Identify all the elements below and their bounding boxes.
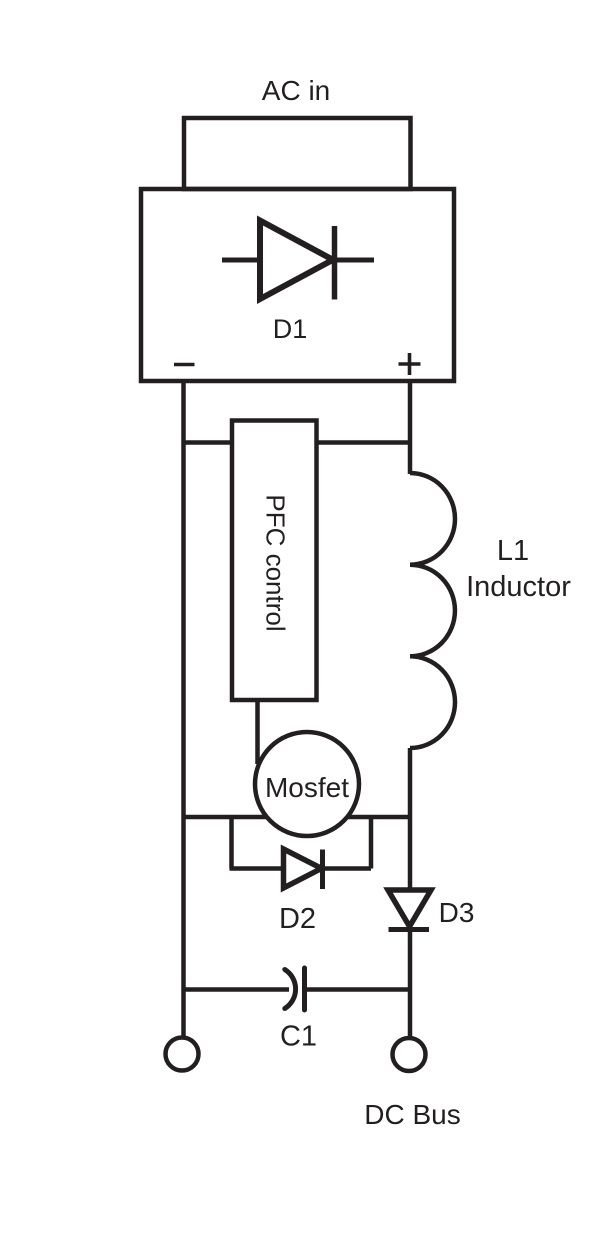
svg-text:Inductor: Inductor: [466, 571, 571, 603]
wire PFC left connector: [184, 440, 233, 445]
minus terminal mark: [174, 363, 195, 367]
svg-text:AC in: AC in: [262, 75, 330, 106]
wire capacitor left lead: [184, 987, 290, 992]
PFC control box U1: [232, 421, 317, 701]
plus terminal mark: [399, 353, 421, 375]
svg-text:D1: D1: [273, 314, 308, 344]
wire right rail top: [408, 381, 413, 474]
wire capacitor right lead: [305, 987, 410, 992]
svg-text:DC Bus: DC Bus: [364, 1099, 460, 1130]
diode D3: [388, 890, 431, 930]
diode D2: [284, 849, 323, 889]
wire gate from PFC to Mosfet: [255, 700, 260, 764]
terminal node DC Bus: [393, 1038, 426, 1071]
wire right rail middle: [408, 748, 413, 892]
wire D2 branch left drop: [229, 815, 234, 869]
wire mosfet horizontal rail: [184, 815, 411, 820]
svg-text:D3: D3: [439, 897, 475, 928]
transistor Mosfet Q1: [255, 732, 359, 836]
svg-text:C1: C1: [280, 1021, 317, 1053]
bridge rectifier D1 box: [141, 189, 454, 381]
wire D2 branch bottom left: [230, 866, 287, 871]
capacitor C1: [285, 968, 305, 1010]
wire D2 branch right rise: [369, 815, 374, 869]
svg-text:PFC control: PFC control: [260, 494, 290, 631]
diode symbol inside D1: [222, 221, 374, 300]
svg-text:L1: L1: [497, 535, 529, 567]
svg-text:Mosfet: Mosfet: [265, 772, 349, 803]
wire D2 branch bottom right: [323, 866, 372, 871]
wire right rail bottom: [408, 931, 413, 1037]
wire PFC right connector: [317, 440, 411, 445]
wire left rail: [181, 381, 186, 1036]
svg-text:D2: D2: [279, 903, 316, 935]
wire AC input loop: [184, 118, 411, 189]
terminal node left: [166, 1038, 199, 1071]
inductor L1: [410, 473, 455, 748]
